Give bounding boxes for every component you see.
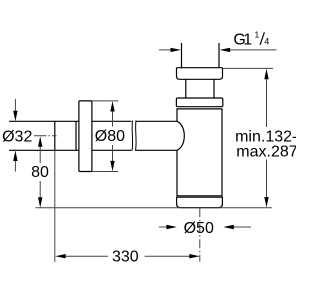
arrow G right — [220, 48, 231, 52]
min-max dimension line — [266, 78, 268, 198]
G1 1/4 fraction slash — [260, 32, 264, 45]
svg-text:Ø80: Ø80 — [95, 128, 125, 145]
arrow 80 down — [38, 197, 42, 208]
arrow dia80 down — [110, 161, 114, 172]
dia50 dimension line — [159, 226, 251, 228]
dia80 dimension line — [112, 110, 114, 162]
pipe centerline — [34, 135, 57, 137]
inlet pipe bottom line — [9, 149, 177, 151]
arrow 80 up — [38, 136, 42, 147]
svg-text:Ø32: Ø32 — [2, 129, 32, 146]
arrow dia80 up — [110, 101, 114, 112]
dim 80 line — [39, 146, 41, 199]
dia80 extension lines — [92, 101, 118, 172]
svg-text:330: 330 — [112, 249, 139, 266]
flange nut — [177, 68, 223, 80]
neck tube — [186, 79, 214, 98]
inlet pipe top line — [9, 120, 177, 122]
bottom cap — [177, 197, 223, 207]
dia32 dimension line — [14, 99, 16, 172]
svg-text:Ø50: Ø50 — [184, 220, 214, 237]
arrow 330 right — [189, 254, 200, 258]
arrow 330 left — [55, 254, 65, 258]
pipe break curve right — [135, 121, 138, 151]
svg-text:80: 80 — [31, 164, 49, 181]
svg-text:1: 1 — [255, 29, 260, 39]
pipe break curve left — [131, 121, 134, 151]
datum line — [35, 207, 271, 209]
G1 1/4 dimension line — [159, 49, 277, 51]
arrow dia32 up — [13, 151, 17, 162]
svg-text:1: 1 — [243, 32, 252, 49]
arrow dia50 left-seg — [166, 225, 177, 229]
arrow dia50 right-seg — [223, 225, 234, 229]
330 dimension line — [65, 255, 191, 257]
pipe coupler edge — [75, 121, 77, 150]
arrow dia32 down — [13, 111, 17, 122]
arrow minmax down — [264, 197, 268, 208]
wall flange — [79, 101, 92, 172]
thread stub — [182, 43, 220, 68]
svg-text:max.287: max.287 — [236, 144, 296, 161]
inlet bump arc — [177, 121, 184, 150]
svg-text:4: 4 — [264, 36, 269, 46]
collar ring — [176, 98, 222, 107]
arrow G left — [171, 48, 182, 52]
pipe inlet end — [54, 121, 56, 150]
arrow minmax up — [264, 69, 268, 80]
body centerline — [199, 208, 201, 261]
trap body — [177, 109, 222, 196]
330 extension line — [54, 150, 56, 262]
min-max top extension line — [223, 67, 274, 69]
